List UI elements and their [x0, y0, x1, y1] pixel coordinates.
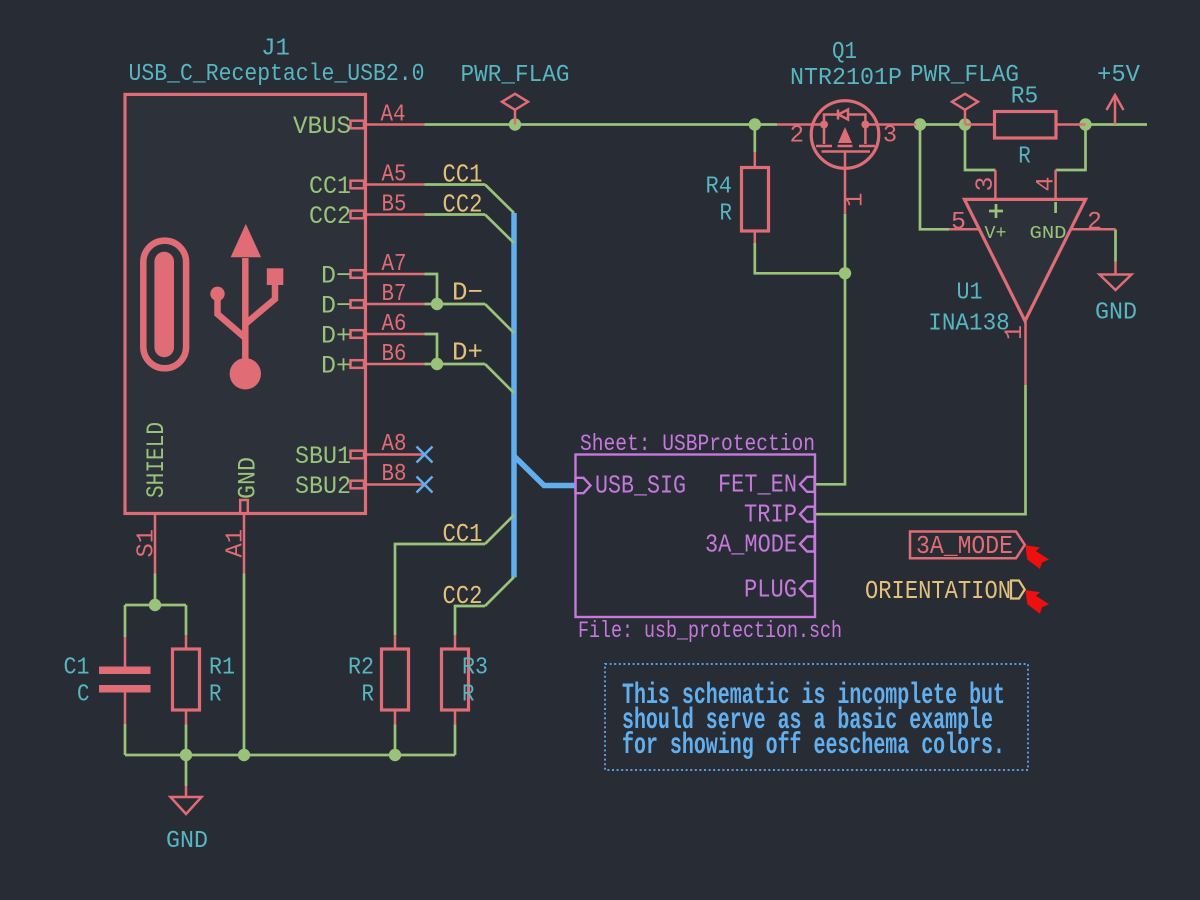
- bus entry CC1 top: [485, 185, 514, 214]
- svg-text:A6: A6: [382, 311, 407, 338]
- svg-text:GND: GND: [1030, 224, 1067, 244]
- svg-text:A7: A7: [382, 251, 407, 278]
- Q1 pin 3 stub: [865, 123, 916, 126]
- junction D+ node: [431, 358, 443, 370]
- J1 pin A7 D-: [321, 251, 425, 291]
- J1 pin A4 VBUS: [293, 102, 425, 142]
- J1 USB logo right branch: [245, 285, 275, 324]
- bus entry CC1 bottom: [485, 515, 514, 544]
- svg-text:+5V: +5V: [1097, 62, 1141, 89]
- wire op-amp pin2 to GND: [1114, 229, 1117, 261]
- wire R3 bottom: [454, 725, 457, 756]
- svg-text:FET_EN: FET_EN: [718, 470, 797, 500]
- wire R2 top CC1: [395, 544, 485, 635]
- U1 triangle: [964, 199, 1085, 321]
- Q1 pin 2 stub: [777, 123, 824, 126]
- power symbol +5V: [1097, 62, 1141, 125]
- ground GND at op-amp: [1095, 262, 1137, 327]
- svg-text:for showing off eeschema color: for showing off eeschema colors.: [622, 729, 1005, 763]
- svg-text:CC1: CC1: [443, 519, 483, 549]
- power flag PWR_FLAG 1: [461, 62, 570, 125]
- svg-text:B5: B5: [382, 192, 407, 219]
- J1 pin A1 GND: [223, 457, 263, 574]
- wire CC2 pin to bus entry: [425, 213, 486, 216]
- wire C1 bottom: [124, 724, 127, 755]
- bus entry CC2 top: [485, 215, 514, 244]
- svg-text:5: 5: [951, 208, 966, 237]
- cursor arrow at 3A_MODE: [1025, 545, 1049, 569]
- svg-text:C: C: [77, 682, 90, 709]
- svg-text:GND: GND: [234, 457, 263, 499]
- svg-text:S1: S1: [134, 529, 161, 558]
- no-connect X on SBU2: [417, 477, 433, 493]
- J1 USB logo arrow head: [231, 224, 262, 257]
- U1 plus mark: [989, 204, 1003, 218]
- wire R5 left to op-amp pin 3: [965, 125, 995, 171]
- wire R1 top: [185, 605, 188, 635]
- wire op-amp output to TRIP: [815, 385, 1026, 514]
- svg-text:CC2: CC2: [309, 202, 351, 231]
- svg-text:2: 2: [790, 123, 804, 150]
- junction VBUS / op-amp V+ branch: [914, 118, 926, 130]
- bus vertical: [511, 213, 517, 577]
- J1 pin S1 SHIELD: [134, 422, 172, 574]
- Q1 source contact dot: [820, 121, 828, 129]
- junction VBUS / PWR_FLAG2 R5: [959, 118, 971, 130]
- U1 pin 5 stub: [949, 228, 980, 231]
- wire R4 top: [753, 125, 756, 153]
- svg-text:B8: B8: [382, 461, 407, 488]
- wire R1 bottom: [185, 725, 188, 756]
- svg-text:J1: J1: [261, 36, 290, 63]
- svg-text:CC1: CC1: [443, 160, 483, 190]
- svg-text:PWR_FLAG: PWR_FLAG: [910, 62, 1019, 89]
- U1 pin 2 stub: [1071, 228, 1116, 231]
- U1 pin 3 stub: [994, 170, 997, 199]
- J1 USB logo bottom circle: [230, 358, 261, 389]
- junction D- node: [431, 298, 443, 310]
- wire A7 to D- node: [425, 274, 438, 304]
- svg-text:ORIENTATION: ORIENTATION: [865, 576, 1011, 606]
- svg-text:R2: R2: [348, 655, 374, 682]
- connector J1 USB_C_Receptacle_USB2.0: [125, 36, 425, 514]
- svg-text:D+: D+: [452, 338, 483, 368]
- junction shield node: [149, 599, 161, 611]
- svg-text:3A_MODE: 3A_MODE: [916, 531, 1013, 561]
- ground GND bottom left: [166, 786, 208, 855]
- wire VBUS rail to +5V: [1086, 123, 1148, 126]
- J1 body: [125, 94, 366, 513]
- svg-text:TRIP: TRIP: [744, 500, 797, 530]
- junction VBUS / R4: [749, 118, 761, 130]
- junction rail / R2: [389, 749, 401, 761]
- svg-text:A5: A5: [382, 162, 407, 189]
- U1 pin 1 stub: [1024, 321, 1027, 385]
- no-connect X on SBU1: [417, 447, 433, 463]
- wire VBUS rail right: [916, 123, 965, 126]
- wire S1 shield down: [154, 574, 157, 606]
- bus branch to sheet USB_SIG: [514, 456, 576, 486]
- J1 USB logo right branch square: [267, 268, 284, 285]
- svg-text:File: usb_protection.sch: File: usb_protection.sch: [578, 618, 842, 644]
- svg-text:D−: D−: [452, 278, 483, 308]
- svg-text:C1: C1: [64, 655, 90, 682]
- Q1 drain contact dot: [861, 121, 869, 129]
- svg-text:4: 4: [1032, 176, 1061, 191]
- resistor R2: [348, 635, 409, 725]
- svg-text:GND: GND: [1095, 300, 1137, 327]
- J1 pin B5 CC2: [309, 192, 425, 232]
- svg-text:D+: D+: [321, 352, 351, 381]
- Q1 gate stem pin 1: [844, 152, 847, 214]
- J1 pin B7 D-: [321, 281, 425, 321]
- J1 USB logo left branch circle: [210, 287, 224, 301]
- svg-text:CC2: CC2: [443, 581, 483, 611]
- svg-text:2: 2: [1087, 208, 1102, 237]
- bus entry D+: [485, 364, 514, 393]
- svg-text:3: 3: [971, 176, 1000, 191]
- svg-text:D−: D−: [321, 262, 351, 291]
- bus entry CC2 bottom: [485, 577, 514, 606]
- svg-text:SHIELD: SHIELD: [142, 422, 171, 498]
- svg-text:3A_MODE: 3A_MODE: [705, 530, 797, 560]
- svg-text:CC1: CC1: [309, 172, 351, 201]
- sheet pin FET_EN: [800, 477, 815, 492]
- sheet USBProtection: [576, 431, 843, 644]
- bus entry D-: [485, 304, 514, 333]
- J1 pin A8 SBU1: [295, 431, 423, 471]
- Q1 contact verticals: [823, 125, 826, 145]
- hierarchical label ORIENTATION: [865, 576, 1025, 606]
- op-amp U1 INA138: [928, 170, 1115, 385]
- global label 3A_MODE: [910, 531, 1025, 561]
- wire B7 D-: [425, 303, 486, 306]
- svg-text:A4: A4: [381, 102, 406, 129]
- junction VBUS / R5 right: [1079, 118, 1091, 130]
- svg-text:U1: U1: [957, 280, 983, 307]
- J1 pin A5 CC1: [309, 162, 425, 202]
- svg-text:R5: R5: [1011, 84, 1039, 111]
- J1 USB logo inner bar: [154, 252, 174, 358]
- sheet pin 3A_MODE: [800, 537, 815, 552]
- J1 USB logo trident stem: [242, 258, 249, 366]
- U1 minus mark: [1054, 202, 1057, 213]
- junction VBUS / PWR_FLAG1: [509, 118, 521, 130]
- wire R2 bottom: [394, 725, 397, 756]
- wire CC1 pin to bus entry: [425, 183, 486, 186]
- svg-text:PLUG: PLUG: [744, 575, 797, 605]
- capacitor C1: [64, 637, 151, 724]
- wire V+ branch: [920, 125, 949, 230]
- svg-text:INA138: INA138: [928, 311, 1010, 338]
- wire A6 to D+ node: [425, 334, 438, 364]
- svg-text:R3: R3: [462, 655, 488, 682]
- sheet pin PLUG: [800, 581, 815, 596]
- svg-text:R: R: [720, 201, 733, 228]
- svg-text:CC2: CC2: [443, 190, 483, 220]
- Q1 channel bars: [816, 145, 832, 148]
- wire A1 down: [243, 574, 246, 756]
- svg-text:A1: A1: [223, 529, 250, 558]
- svg-text:B7: B7: [382, 281, 407, 308]
- Q1 gate plate: [822, 150, 871, 153]
- wire ground rail: [125, 754, 455, 757]
- J1 pin B6 D+: [321, 341, 425, 381]
- svg-text:R4: R4: [706, 174, 733, 201]
- Q1 circle: [811, 101, 879, 169]
- svg-text:R: R: [1018, 144, 1031, 171]
- svg-text:R1: R1: [209, 655, 235, 682]
- svg-text:PWR_FLAG: PWR_FLAG: [461, 62, 570, 89]
- svg-text:R: R: [362, 682, 375, 709]
- svg-text:V+: V+: [985, 224, 1007, 244]
- wire B6 D+: [425, 363, 486, 366]
- U1 pin 4 stub: [1054, 170, 1057, 199]
- svg-text:SBU1: SBU1: [295, 442, 351, 471]
- wire VBUS rail left: [425, 123, 778, 126]
- svg-text:GND: GND: [166, 828, 208, 855]
- transistor Q1 NTR2101P: [777, 39, 916, 214]
- junction gate / R4: [839, 267, 851, 279]
- svg-text:3: 3: [883, 123, 897, 150]
- J1 pin B8 SBU2: [295, 461, 423, 501]
- wire C1 top: [124, 605, 127, 637]
- Q1 body diode: [824, 115, 838, 125]
- resistor R4: [706, 152, 769, 243]
- sheet pin USB_SIG: [576, 478, 591, 493]
- wire Q1 gate to FET_EN: [815, 214, 846, 485]
- svg-text:B6: B6: [382, 341, 407, 368]
- resistor R1: [173, 635, 236, 725]
- svg-text:Q1: Q1: [832, 39, 857, 66]
- wire R5 right to op-amp pin 4: [1056, 125, 1086, 171]
- svg-text:NTR2101P: NTR2101P: [790, 65, 902, 92]
- svg-text:R: R: [462, 682, 475, 709]
- junction rail / A1: [238, 749, 250, 761]
- svg-text:A8: A8: [382, 431, 407, 458]
- wire shield node horizontal: [125, 604, 186, 607]
- junction rail / GND symbol: [180, 749, 192, 761]
- wire R4 bottom to gate: [755, 243, 845, 273]
- svg-text:USB_C_Receptacle_USB2.0: USB_C_Receptacle_USB2.0: [129, 61, 425, 88]
- power flag PWR_FLAG 2: [910, 62, 1019, 125]
- svg-text:VBUS: VBUS: [293, 112, 351, 141]
- J1 USB logo oval: [143, 241, 186, 369]
- note text box: [605, 664, 1028, 770]
- svg-text:D+: D+: [321, 322, 351, 351]
- J1 USB logo left branch: [218, 298, 246, 338]
- resistor R5: [965, 84, 1086, 171]
- sheet pin TRIP: [800, 507, 815, 522]
- svg-text:Sheet: USBProtection: Sheet: USBProtection: [580, 431, 815, 457]
- Q1 substrate arrow: [838, 127, 852, 143]
- svg-text:1: 1: [843, 193, 870, 207]
- svg-text:D−: D−: [321, 292, 351, 321]
- cursor arrow at ORIENTATION: [1025, 590, 1049, 614]
- svg-text:R: R: [209, 682, 222, 709]
- J1 pin A6 D+: [321, 311, 425, 351]
- wire R3 top CC2: [455, 606, 485, 635]
- wire GND1 stem: [185, 755, 188, 786]
- resistor R3: [442, 635, 489, 725]
- svg-text:USB_SIG: USB_SIG: [595, 471, 686, 501]
- svg-text:SBU2: SBU2: [295, 472, 351, 501]
